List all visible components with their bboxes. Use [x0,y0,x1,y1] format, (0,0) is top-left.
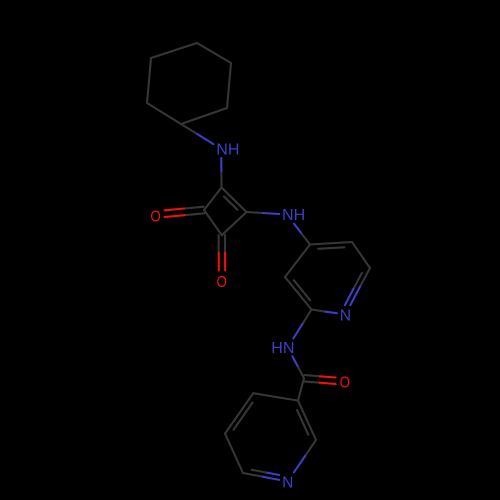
svg-text:O: O [217,274,227,291]
svg-text:N: N [340,307,351,324]
svg-text:NH: NH [282,207,305,224]
svg-text:O: O [340,375,350,392]
svg-text:NH: NH [216,142,239,159]
svg-text:HN: HN [271,340,294,357]
svg-text:N: N [282,475,293,492]
svg-text:O: O [150,208,160,225]
